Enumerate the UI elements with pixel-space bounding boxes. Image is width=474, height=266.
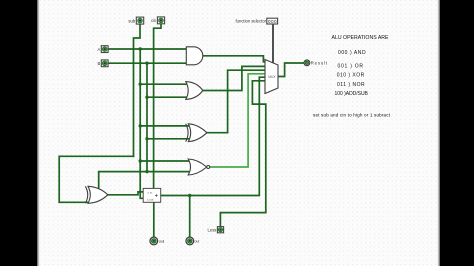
wire adder carry-out to cout pin bbox=[153, 202, 155, 237]
pin out (output) bbox=[186, 237, 199, 245]
wire cin pin down to adder carry-in bbox=[154, 24, 161, 189]
wire XOR1 bottom input bbox=[147, 138, 189, 140]
wire AND output to MUX in0 bbox=[203, 56, 265, 62]
or gate U2 bbox=[186, 82, 203, 100]
node B branch on wire B bbox=[145, 62, 148, 65]
svg-text:sub: sub bbox=[128, 18, 135, 23]
wire A pin to AND gate bbox=[108, 48, 186, 50]
svg-text:B: B bbox=[98, 61, 101, 66]
svg-text:000: 000 bbox=[268, 19, 277, 24]
wire NOR output (bright, logic 1) to MUX in3 bbox=[210, 74, 265, 167]
svg-text:001 ) OR: 001 ) OR bbox=[338, 64, 364, 70]
pin Less (input) bbox=[208, 227, 224, 233]
svg-text:c out: c out bbox=[147, 198, 154, 202]
wire MUX output to Result pin bbox=[278, 63, 304, 77]
wire A branch vertical to adder input bbox=[140, 49, 143, 198]
wire select bus (black) from function selector to MUX bbox=[272, 24, 274, 63]
node NOR top tap bbox=[139, 159, 142, 162]
wire adder sum to MUX in4 bbox=[161, 77, 265, 195]
pin A (input) bbox=[98, 46, 109, 53]
wire sum branch to out pin bbox=[189, 196, 191, 238]
wire XOR1 top input bbox=[140, 125, 188, 127]
mux U7 bbox=[265, 60, 278, 94]
svg-text:010 ) XOR: 010 ) XOR bbox=[337, 73, 365, 79]
svg-text:100 )ADD/SUB: 100 )ADD/SUB bbox=[335, 91, 369, 97]
pin B (input) bbox=[98, 60, 109, 67]
xor gate U3 bbox=[186, 124, 207, 142]
nor gate U4 bbox=[188, 159, 210, 175]
wire NOR bottom input / XOR2 top feed bbox=[99, 172, 189, 189]
svg-text:A: A bbox=[98, 47, 101, 52]
pin cout (output) bbox=[150, 237, 164, 245]
node NOR bottom tap bbox=[145, 170, 148, 173]
wire B branch vertical bbox=[146, 63, 148, 171]
svg-text:ALU OPERATIONS ARE: ALU OPERATIONS ARE bbox=[332, 35, 390, 41]
node XOR1 bottom tap bbox=[145, 137, 148, 140]
svg-text:set sub and cin to high or 1: set sub and cin to high or 1 subract bbox=[313, 113, 391, 118]
wire Less pin to MUX in5 bbox=[220, 81, 265, 227]
wire NOR top input bbox=[140, 160, 188, 162]
junction dots bbox=[139, 47, 192, 197]
svg-text:+: + bbox=[155, 194, 159, 200]
node OR1 top tap bbox=[139, 83, 142, 86]
node XOR1 top tap bbox=[139, 124, 142, 127]
adder U6 bbox=[143, 188, 161, 202]
node A branch on wire A bbox=[139, 47, 142, 50]
svg-text:c in: c in bbox=[148, 190, 153, 194]
pin Result (output) bbox=[304, 60, 328, 66]
svg-text:out: out bbox=[195, 240, 200, 244]
and gate U1 bbox=[186, 47, 203, 65]
pin function selector (3-bit input) bbox=[236, 18, 278, 24]
wire B pin to AND gate bbox=[108, 62, 186, 64]
node sum branch bbox=[188, 194, 191, 197]
pin sub (input) bbox=[128, 17, 143, 24]
wire OR1 output to MUX in1 bbox=[203, 66, 265, 90]
xor gate U5 (B xor sub) bbox=[85, 186, 107, 203]
wire sub run left and down to XOR2 bottom input bbox=[59, 156, 133, 202]
svg-text:Result: Result bbox=[311, 61, 328, 66]
pin cin (input) bbox=[151, 17, 165, 24]
svg-text:MUX: MUX bbox=[268, 75, 276, 79]
svg-text:011 ) NOR: 011 ) NOR bbox=[337, 82, 365, 88]
svg-text:function selector: function selector bbox=[236, 18, 267, 23]
wire OR1 top input bbox=[140, 83, 186, 85]
wire XOR2 output to adder input bbox=[108, 192, 143, 195]
svg-text:cout: cout bbox=[159, 240, 165, 244]
svg-text:Less: Less bbox=[208, 227, 217, 232]
node OR1 bottom tap bbox=[145, 96, 148, 99]
wire sub pin down-left-down bbox=[134, 24, 141, 156]
wire XOR1 output to MUX in2 bbox=[207, 70, 265, 133]
wire OR1 bottom input bbox=[147, 96, 186, 98]
svg-text:000 ) AND: 000 ) AND bbox=[338, 50, 366, 56]
svg-text:cin: cin bbox=[151, 18, 157, 23]
